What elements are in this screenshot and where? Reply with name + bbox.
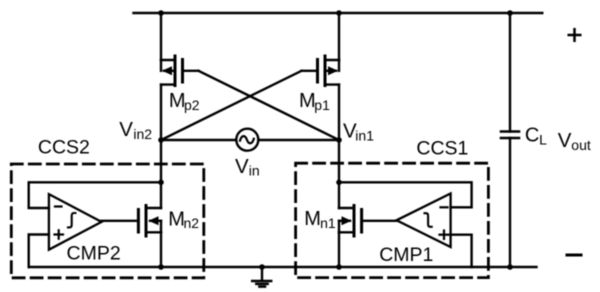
junction dot ground rail / CL branch bbox=[507, 264, 513, 270]
label + (output polarity top) bbox=[569, 29, 581, 41]
wire CL branch from rail bbox=[509, 13, 511, 132]
wire node Vin1 down to Mn1 drain bbox=[338, 140, 340, 208]
svg-text:M: M bbox=[304, 208, 321, 230]
capacitor CL bbox=[501, 132, 519, 139]
wire source Vin to node Vin1 bbox=[258, 139, 339, 141]
svg-text:V: V bbox=[119, 118, 133, 141]
enclosure CCS1 (dashed box) bbox=[296, 163, 489, 277]
wire bottom ground rail bbox=[29, 266, 537, 268]
label Vin bbox=[235, 155, 260, 179]
label Vout bbox=[558, 129, 591, 153]
svg-text:C: C bbox=[525, 125, 539, 147]
wire CL bottom to ground rail bbox=[509, 138, 511, 267]
svg-text:CCS2: CCS2 bbox=[38, 137, 90, 159]
svg-text:CMP2: CMP2 bbox=[67, 242, 121, 264]
wire Mp2 source from rail bbox=[160, 13, 162, 60]
label Mp2 bbox=[169, 90, 200, 113]
svg-text:n1: n1 bbox=[320, 215, 336, 231]
transistor Mn2 bbox=[138, 206, 161, 237]
enclosure CCS2 (dashed box) bbox=[11, 164, 204, 278]
svg-text:M: M bbox=[168, 209, 185, 231]
junction dot top rail / Mp1 source bbox=[336, 10, 342, 16]
label CL bbox=[525, 125, 547, 148]
wire Mp1 source from rail bbox=[338, 13, 340, 60]
wire CMP2 inverting feedback (node Vin2 to - input) bbox=[29, 182, 161, 208]
wire CMP2 non-inverting feedback (ground rail to + input) bbox=[29, 235, 49, 268]
wire Mn2 source to ground rail bbox=[160, 232, 162, 267]
svg-text:in1: in1 bbox=[355, 127, 374, 143]
node Vin2 junction dot bbox=[158, 137, 164, 143]
junction dot ground rail / ground symbol bbox=[259, 264, 265, 270]
junction dot Vin1 branch to CMP1 inverting input bbox=[336, 180, 342, 186]
wire node Vin2 down to Mn2 drain bbox=[160, 140, 162, 208]
svg-text:L: L bbox=[539, 131, 547, 147]
wire CMP2 output to Mn2 gate bbox=[102, 220, 139, 222]
wire top supply rail bbox=[134, 12, 543, 14]
junction dot top rail / Mp2 source bbox=[158, 10, 164, 16]
op-amp CMP2 (comparator) bbox=[49, 194, 102, 250]
svg-text:M: M bbox=[299, 90, 316, 112]
node Vin1 junction dot bbox=[336, 137, 342, 143]
label - (output polarity bottom) bbox=[567, 254, 581, 257]
label Mp1 bbox=[299, 90, 330, 113]
op-amp CMP1 (comparator) bbox=[397, 194, 451, 248]
junction dot ground rail / Mn1 source bbox=[336, 264, 342, 270]
label Mn2 bbox=[168, 209, 199, 231]
svg-text:p2: p2 bbox=[184, 97, 200, 113]
svg-text:p1: p1 bbox=[314, 97, 330, 113]
wire cross-couple Mp1 gate to node Vin2 bbox=[161, 71, 302, 140]
label Vin2 bbox=[119, 118, 152, 142]
svg-text:CCS1: CCS1 bbox=[416, 137, 468, 159]
transistor Mp1 bbox=[302, 56, 340, 86]
svg-text:in: in bbox=[249, 163, 260, 179]
wire Mp2 drain to node Vin2 bbox=[160, 85, 162, 140]
svg-text:CMP1: CMP1 bbox=[379, 244, 433, 266]
label Mn1 bbox=[304, 208, 336, 231]
wire CMP1 output to Mn1 gate bbox=[362, 220, 397, 222]
svg-text:n2: n2 bbox=[184, 215, 200, 231]
transistor Mp2 bbox=[161, 56, 199, 86]
transistor Mn1 bbox=[339, 206, 362, 237]
svg-text:out: out bbox=[571, 137, 591, 153]
svg-text:V: V bbox=[558, 129, 572, 152]
junction dot ground rail / Mn2 source bbox=[158, 264, 164, 270]
wire node Vin2 to source Vin bbox=[161, 139, 236, 141]
junction dot Vin2 branch to CMP2 inverting input bbox=[158, 180, 164, 186]
wire cross-couple Mp2 gate to node Vin1 bbox=[199, 71, 340, 140]
svg-text:V: V bbox=[235, 155, 249, 178]
wire Mp1 drain to node Vin1 bbox=[338, 85, 340, 140]
svg-text:in2: in2 bbox=[133, 126, 152, 142]
label Vin1 bbox=[343, 120, 374, 144]
junction dot top rail / CL branch bbox=[507, 10, 513, 16]
ground bbox=[252, 267, 271, 287]
source Vin (AC source) bbox=[236, 129, 258, 151]
wire Mn1 source to ground rail bbox=[338, 232, 340, 267]
wire CMP1 inverting feedback (node Vin1 to - input) bbox=[339, 182, 472, 207]
wire CMP1 non-inverting feedback (ground rail to + input) bbox=[451, 235, 472, 267]
